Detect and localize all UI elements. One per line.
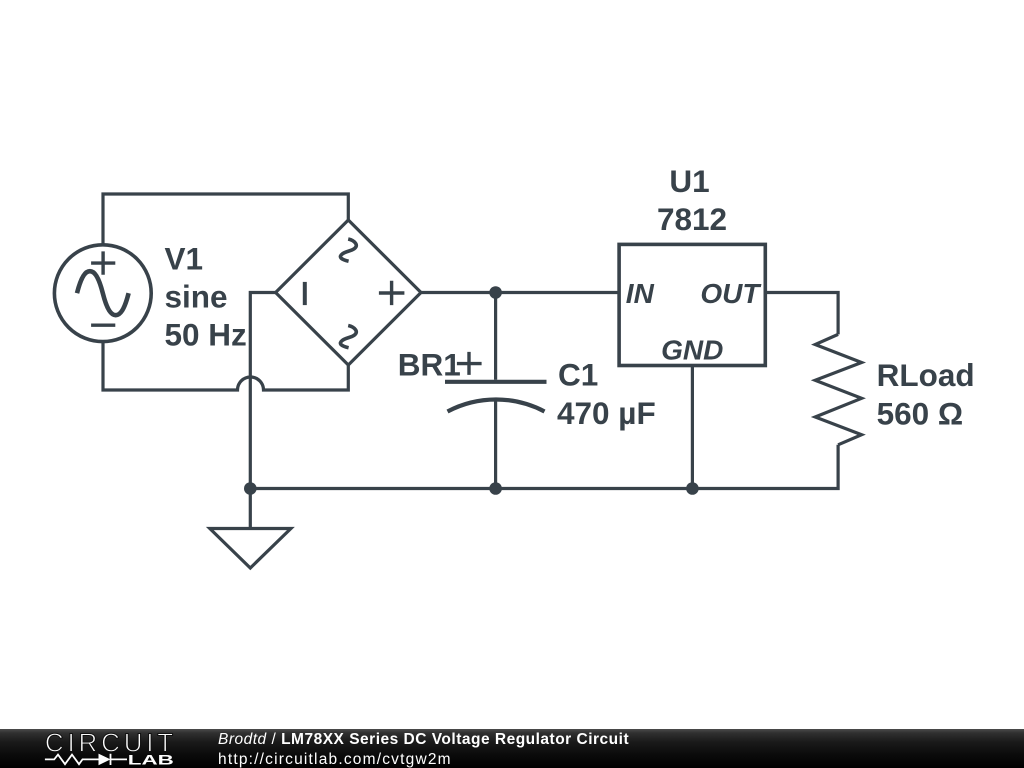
svg-text:7812: 7812: [657, 201, 727, 237]
svg-text:http://circuitlab.com/cvtgw2m: http://circuitlab.com/cvtgw2m: [218, 751, 452, 768]
svg-text:OUT: OUT: [700, 278, 762, 309]
svg-text:C1: C1: [558, 357, 598, 393]
svg-text:470 µF: 470 µF: [557, 395, 656, 431]
svg-text:LAB: LAB: [128, 752, 174, 768]
svg-text:GND: GND: [661, 335, 723, 366]
svg-text:50 Hz: 50 Hz: [165, 317, 247, 353]
svg-text:BR1: BR1: [398, 346, 461, 382]
svg-text:V1: V1: [165, 241, 204, 277]
svg-text:U1: U1: [669, 163, 709, 199]
svg-text:sine: sine: [165, 279, 228, 315]
svg-text:Brodtd / LM78XX Series DC Volt: Brodtd / LM78XX Series DC Voltage Regula…: [218, 731, 629, 748]
svg-text:560 Ω: 560 Ω: [877, 396, 964, 432]
svg-text:IN: IN: [626, 278, 655, 309]
svg-text:RLoad: RLoad: [877, 357, 975, 393]
